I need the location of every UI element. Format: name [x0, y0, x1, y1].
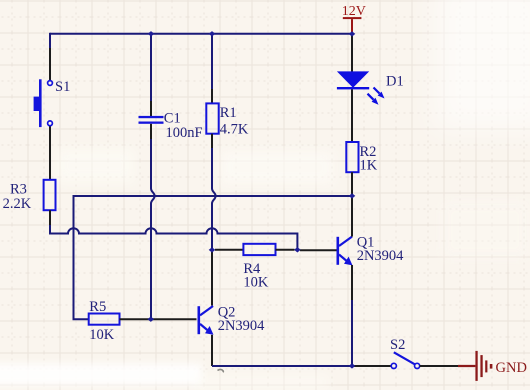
- transistor Q1: [337, 237, 353, 266]
- svg-text:S1: S1: [55, 79, 70, 95]
- pin R2 bottom: [351, 172, 353, 196]
- cursor artifact near rail corner: [218, 369, 224, 372]
- pin Q1 collector up: [351, 198, 353, 237]
- wire R1 vertical from rail: [211, 33, 213, 89]
- wire S2 to GND: [420, 365, 459, 367]
- node junction Q1e-rail: [349, 363, 356, 368]
- resistor R1: [206, 103, 218, 133]
- resistor R4: [243, 244, 275, 255]
- svg-text:GND: GND: [496, 360, 527, 376]
- wire bottom rail: [212, 365, 352, 367]
- node junction C1-R5: [148, 317, 155, 322]
- pin S1 bottom to R3: [49, 126, 51, 180]
- wire Q1 emitter to bottom rail: [351, 300, 353, 366]
- svg-text:10K: 10K: [89, 327, 115, 343]
- pin C1 top: [150, 101, 152, 116]
- pin R1 bottom: [211, 134, 213, 148]
- power GND symbol: [458, 351, 492, 381]
- svg-text:2.2K: 2.2K: [3, 196, 32, 212]
- node junction rail-C1: [148, 31, 155, 36]
- svg-text:2N3904: 2N3904: [218, 318, 265, 334]
- power 12V symbol: [343, 17, 362, 33]
- pin R3 bottom: [49, 210, 51, 226]
- svg-text:D1: D1: [386, 74, 404, 90]
- pin Q2 emitter down: [211, 335, 213, 366]
- svg-text:4.7K: 4.7K: [220, 122, 249, 138]
- wire junction to Q1 base: [300, 249, 318, 251]
- pin Q1 base: [318, 249, 337, 251]
- resistor R5: [89, 314, 120, 325]
- node junction R2-bus196: [349, 193, 356, 198]
- pin Q1 emitter down: [351, 265, 353, 300]
- switch S1: [34, 79, 53, 127]
- svg-text:R1: R1: [220, 105, 237, 121]
- node junction R4-bus233: [294, 247, 301, 252]
- switch S2: [391, 352, 420, 368]
- wire bus Q1-base net: R3 bottom along y=233.5 with hops, down to R4 right junction: [50, 225, 297, 250]
- pin S1 top: [49, 48, 51, 81]
- svg-text:2N3904: 2N3904: [357, 248, 404, 264]
- pin C1 bottom: [150, 124, 152, 139]
- pin D1 bottom / R2 top: [351, 89, 353, 142]
- wire rail to S2: [352, 365, 391, 367]
- LED D1: [337, 71, 385, 104]
- wire bus Q1-collector net: y=196 from corner x=74.5 to R2 junction: [74, 196, 353, 319]
- wire junction to R4 left: [215, 249, 243, 251]
- wire R4 right to junction: [276, 249, 295, 251]
- node junction rail-12V: [349, 31, 356, 36]
- wire R1 down with jog over y196, to R4 junction: [212, 148, 216, 250]
- svg-text:12V: 12V: [342, 4, 366, 19]
- node junction R1-R4-Q2c: [209, 247, 216, 252]
- wire C1 vertical from rail: [150, 33, 152, 101]
- transistor Q2: [198, 306, 214, 335]
- paper mottling (scan artifacts): [0, 364, 202, 385]
- wire C1 down with jog over y196, to R5 junction: [151, 139, 155, 319]
- svg-text:10K: 10K: [243, 275, 269, 291]
- svg-text:R5: R5: [89, 299, 106, 315]
- wire left drop from rail to S1: [49, 33, 51, 48]
- wire top power rail: [50, 33, 352, 35]
- resistor R2: [346, 142, 358, 172]
- svg-text:S2: S2: [390, 337, 405, 353]
- svg-text:100nF: 100nF: [166, 125, 203, 141]
- svg-text:1K: 1K: [360, 158, 378, 174]
- resistor R3: [44, 180, 56, 210]
- node junction rail-R1: [209, 31, 216, 36]
- capacitor C1: [139, 116, 164, 124]
- pin Q2 collector: [211, 252, 213, 306]
- pin D1 top: [351, 35, 353, 72]
- pin R1 top: [211, 89, 213, 103]
- wire R5 right to Q2 base: [120, 318, 197, 320]
